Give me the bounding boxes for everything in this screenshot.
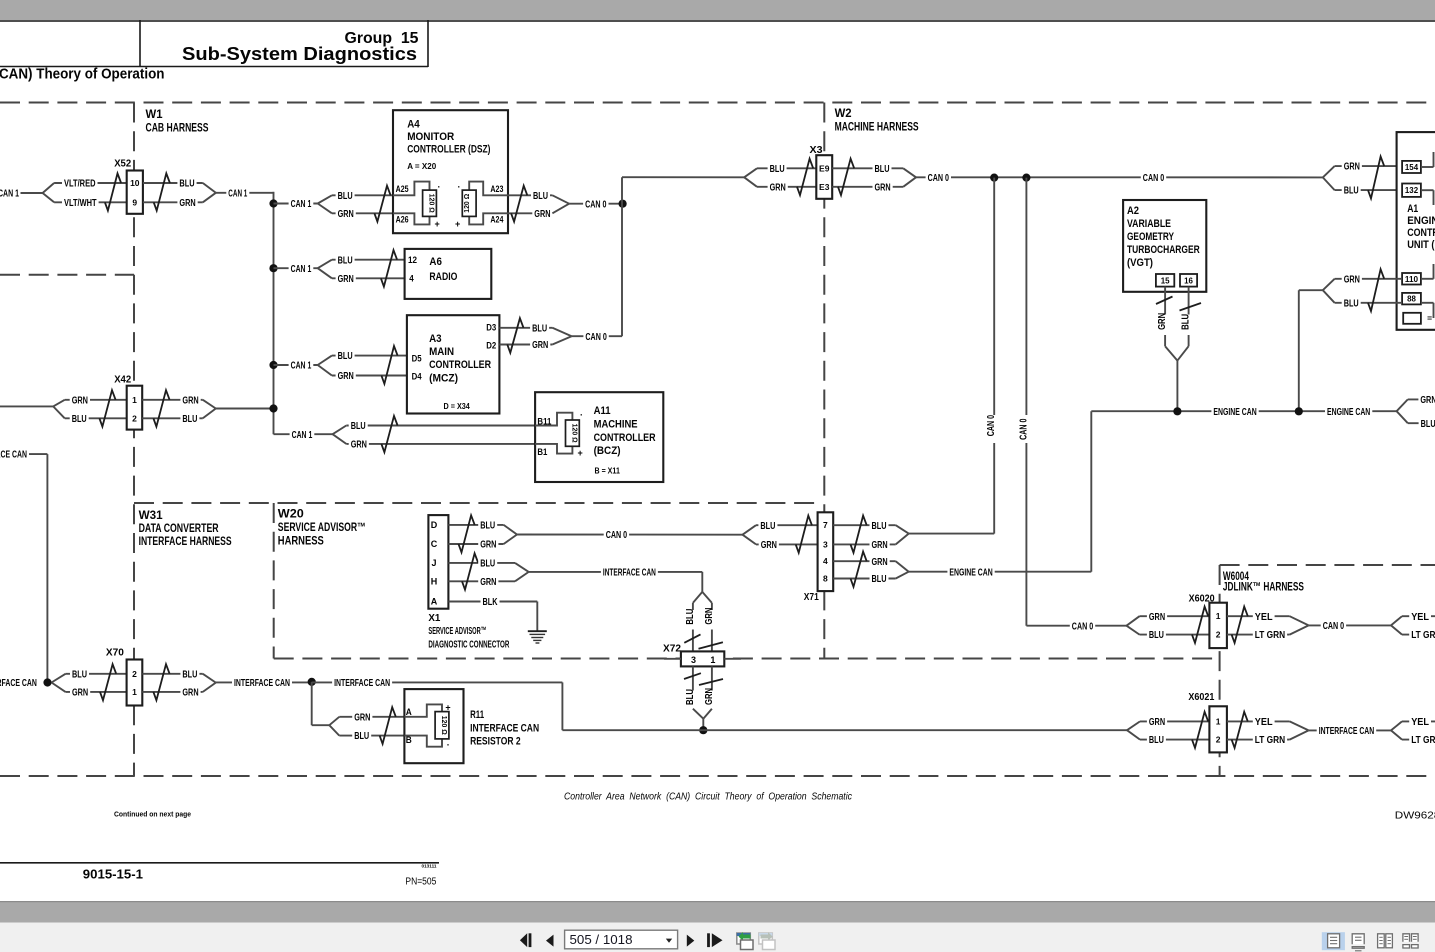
svg-text:(CAN) Theory of Operation: (CAN) Theory of Operation <box>0 67 165 83</box>
svg-text:W31: W31 <box>139 508 163 522</box>
net CAN 0 jdlink <box>1309 624 1391 626</box>
svg-text:9: 9 <box>132 197 137 207</box>
svg-text:120 Ω: 120 Ω <box>462 194 471 213</box>
svg-text:BLU: BLU <box>1149 735 1164 746</box>
svg-text:2: 2 <box>1216 735 1221 745</box>
svg-text:SERVICE ADVISOR™: SERVICE ADVISOR™ <box>278 520 366 534</box>
svg-text:GRN: GRN <box>704 608 715 625</box>
svg-text:D2: D2 <box>486 340 496 350</box>
svg-text:CAN 0: CAN 0 <box>1323 621 1345 632</box>
svg-text:GRN: GRN <box>532 340 548 351</box>
svg-text:+: + <box>445 703 450 713</box>
svg-text:BLU: BLU <box>1149 630 1164 641</box>
toolbar continuous view button <box>1352 934 1364 944</box>
svg-text:CAN 1: CAN 1 <box>291 264 312 275</box>
svg-text:BLU: BLU <box>1344 186 1359 197</box>
svg-text:UNIT (ECU): UNIT (ECU) <box>1407 239 1435 251</box>
svg-text:GRN: GRN <box>179 198 195 209</box>
svg-text:D: D <box>431 520 438 530</box>
junction CAN1-A6 <box>269 264 277 272</box>
svg-text:DATA CONVERTER: DATA CONVERTER <box>139 521 219 535</box>
svg-text:120 Ω: 120 Ω <box>440 716 449 735</box>
svg-text:GRN: GRN <box>354 712 370 723</box>
wire A4 right pair to CAN 0 <box>508 194 552 196</box>
junction A2-ENGINE CAN <box>1173 407 1181 415</box>
svg-text:ENGINE CAN: ENGINE CAN <box>1213 407 1256 418</box>
svg-text:·: · <box>447 740 450 750</box>
controller A4 MONITOR CONTROLLER (DSZ) <box>393 110 508 233</box>
toolbar background <box>0 923 1435 952</box>
harness boundary top dashed <box>0 102 1435 104</box>
junction A1-ENGINE CAN <box>1295 407 1303 415</box>
svg-text:SERVICE ADVISOR™: SERVICE ADVISOR™ <box>428 625 486 637</box>
harness W31/W20 top boundary dashed <box>134 502 816 504</box>
svg-text:1: 1 <box>1216 611 1221 621</box>
twisted pair mark <box>511 186 527 222</box>
resistor R11 INTERFACE CAN RESISTOR 2 <box>404 689 463 763</box>
svg-text:R11: R11 <box>470 709 484 721</box>
svg-text:LT GRN: LT GRN <box>1411 630 1435 641</box>
svg-text:1: 1 <box>1216 716 1221 726</box>
svg-text:INTERFACE CAN: INTERFACE CAN <box>470 722 539 734</box>
svg-text:BLU: BLU <box>72 669 87 680</box>
ground <box>528 630 547 632</box>
svg-text:INTERFACE CAN: INTERFACE CAN <box>234 678 290 689</box>
ECU A1 lower pins <box>1402 273 1421 285</box>
wire X52 right pair <box>143 182 203 184</box>
svg-text:GEOMETRY: GEOMETRY <box>1127 231 1174 243</box>
svg-text:013111: 013111 <box>422 864 438 869</box>
svg-text:B1: B1 <box>537 447 547 457</box>
svg-text:10: 10 <box>130 178 140 188</box>
twisted pair mark <box>796 516 812 553</box>
svg-text:BLU: BLU <box>760 521 775 532</box>
svg-text:X42: X42 <box>114 374 131 386</box>
junction X72-INTERFACE CAN <box>699 726 707 734</box>
twisted pair mark <box>851 516 867 553</box>
wire X72 boundary stubs <box>664 658 681 660</box>
wire X71 right pairs 7/3 <box>833 524 896 526</box>
net INTERFACE CAN service advisor <box>529 571 703 573</box>
wire X6021 right pair <box>1227 720 1290 722</box>
net CAN 0 from A3 <box>572 335 622 337</box>
harness W31/W20 divider dashed <box>273 503 275 659</box>
svg-text:GRN: GRN <box>1344 162 1360 173</box>
svg-text:CAN 0: CAN 0 <box>606 530 628 541</box>
wire X1 A pin BLK to ground <box>448 601 537 603</box>
svg-text:VARIABLE: VARIABLE <box>1127 218 1171 230</box>
svg-text:CAB HARNESS: CAB HARNESS <box>146 121 209 135</box>
radio A6 <box>405 249 492 299</box>
harness W6004 boundary dashed vertical <box>1219 565 1221 776</box>
net CAN 1 from left edge <box>0 187 21 198</box>
wire CAN0 riser <box>621 177 623 336</box>
toolbar next page button <box>687 935 695 947</box>
svg-text:E3: E3 <box>819 182 830 192</box>
svg-text:GRN: GRN <box>875 182 891 193</box>
svg-text:CAN 1: CAN 1 <box>228 188 247 199</box>
wire CAN0 to drop <box>909 533 995 535</box>
svg-text:GRN: GRN <box>761 540 777 551</box>
twisted pair mark <box>381 346 397 384</box>
wire merge to CAN 1 <box>203 183 216 193</box>
svg-text:+: + <box>455 219 460 229</box>
wire split to X70 <box>52 674 66 683</box>
wire from left edge to X42 <box>0 405 53 407</box>
resistor 120 ohm A4 right <box>469 182 508 196</box>
svg-text:BLU: BLU <box>338 351 353 362</box>
toolbar page combo box <box>565 930 678 949</box>
junction CAN0 <box>619 200 627 208</box>
svg-text:GRN: GRN <box>182 395 198 406</box>
svg-text:TURBOCHARGER: TURBOCHARGER <box>1127 244 1200 256</box>
net INTERFACE CAN jdlink <box>1309 729 1391 731</box>
svg-text:J: J <box>431 558 436 568</box>
svg-text:LT GRN: LT GRN <box>1411 735 1435 746</box>
wire A1 lower to ENGINE CAN <box>1299 289 1323 291</box>
svg-text:D5: D5 <box>412 353 422 363</box>
svg-text:BLU: BLU <box>480 559 495 570</box>
twisted pair mark <box>1192 712 1208 748</box>
harness W6004 boundary dashed horizontal <box>1220 564 1435 566</box>
svg-text:D = X34: D = X34 <box>444 401 471 411</box>
svg-text:X6021: X6021 <box>1188 691 1214 703</box>
twisted pair mark <box>105 173 121 210</box>
svg-text:CONTROLLER (DSZ): CONTROLLER (DSZ) <box>407 144 491 156</box>
harness W20 bottom boundary dashed <box>274 658 1220 660</box>
connector X1 SERVICE ADVISOR DIAGNOSTIC CONNECTOR <box>428 515 448 609</box>
junction CAN1-A4 <box>269 199 277 207</box>
wire branch CAN1 to A3 <box>274 364 318 366</box>
junction CAN0 drop 1 <box>990 174 998 182</box>
wire A1 pin 88 stub <box>1421 302 1434 304</box>
svg-text:BLU: BLU <box>685 609 696 625</box>
twisted pair mark <box>684 673 701 679</box>
wire branch CAN1 to A11 <box>274 433 333 435</box>
controller A3 MAIN CONTROLLER (MCZ) <box>407 315 500 413</box>
svg-text:MONITOR: MONITOR <box>407 131 454 143</box>
twisted pair mark <box>1156 297 1173 305</box>
svg-text:12: 12 <box>408 255 417 265</box>
svg-text:LT GRN: LT GRN <box>1255 735 1285 746</box>
svg-text:X70: X70 <box>106 647 124 659</box>
svg-text:3: 3 <box>691 655 696 665</box>
svg-text:INTERFACE CAN: INTERFACE CAN <box>1319 726 1375 737</box>
svg-text:A23: A23 <box>490 184 503 194</box>
svg-text:BLU: BLU <box>532 323 547 334</box>
wire INTERFACE CAN upper left <box>0 449 29 460</box>
svg-text:A25: A25 <box>396 184 409 194</box>
twisted pair mark <box>153 664 169 700</box>
svg-text:ENGINE CAN: ENGINE CAN <box>1327 407 1370 418</box>
twisted pair mark <box>459 515 475 552</box>
svg-text:BLU: BLU <box>179 179 194 190</box>
svg-text:CAN 1: CAN 1 <box>291 361 312 372</box>
twisted pair mark <box>381 416 397 452</box>
svg-text:2: 2 <box>132 669 137 679</box>
junction X42-bus <box>269 404 277 412</box>
svg-text:GRN: GRN <box>1157 313 1168 330</box>
net CAN 0 machine bus <box>916 176 1323 178</box>
junction INTERFACE CAN / R11 <box>308 678 316 686</box>
toolbar previous page button <box>546 935 554 947</box>
svg-text:GRN: GRN <box>338 274 354 285</box>
svg-text:2: 2 <box>1216 630 1221 640</box>
svg-text:GRN: GRN <box>480 540 496 551</box>
svg-text:CAN 1: CAN 1 <box>0 189 19 200</box>
svg-text:X71: X71 <box>804 591 819 603</box>
wire X1 D/C pair <box>448 524 503 526</box>
svg-text:A2: A2 <box>1127 205 1139 217</box>
svg-text:(MCZ): (MCZ) <box>429 373 458 385</box>
svg-text:INTERFACE CAN: INTERFACE CAN <box>334 678 390 689</box>
svg-text:BLU: BLU <box>685 689 696 705</box>
wire CAN0 drop to X6020 <box>1025 178 1027 415</box>
bottom gray bar <box>0 902 1435 923</box>
svg-text:GRN: GRN <box>338 209 354 220</box>
svg-text:A4: A4 <box>407 119 420 131</box>
net CAN 0 from A4 <box>569 203 623 205</box>
svg-text:A: A <box>431 596 438 606</box>
net ENGINE CAN <box>1091 410 1396 412</box>
svg-text:A = X20: A = X20 <box>407 161 436 171</box>
wire X1 J/H pair <box>448 562 515 564</box>
svg-text:INTERFACE CAN: INTERFACE CAN <box>0 450 27 461</box>
twisted pair mark <box>154 173 170 210</box>
svg-text:W20: W20 <box>278 507 304 521</box>
left harness lower boundary dashed <box>0 274 134 276</box>
svg-text:GRN: GRN <box>704 688 715 705</box>
svg-text:8: 8 <box>823 574 828 584</box>
resistor 120 ohm A4 left <box>393 182 430 196</box>
svg-text:GRN: GRN <box>338 371 354 382</box>
wire corner down to CAN1 bus <box>273 192 275 204</box>
svg-text:W1: W1 <box>146 107 163 121</box>
svg-text:MACHINE HARNESS: MACHINE HARNESS <box>835 120 919 134</box>
svg-text:INTERFACE HARNESS: INTERFACE HARNESS <box>139 534 232 548</box>
svg-text:GRN: GRN <box>72 688 88 699</box>
net CAN 0 service advisor <box>517 534 743 536</box>
svg-text:B = X11: B = X11 <box>595 466 621 476</box>
wire A1 lower pair chevron <box>1323 279 1335 290</box>
twisted pair mark <box>1232 712 1248 748</box>
toolbar open in new window icon <box>737 933 751 944</box>
svg-text:RADIO: RADIO <box>429 271 457 283</box>
svg-text:BLU: BLU <box>1421 419 1435 430</box>
svg-text:GRN: GRN <box>182 688 198 699</box>
svg-text:X72: X72 <box>663 642 681 654</box>
net ENGINE CAN lower run <box>909 571 1092 573</box>
svg-text:=: = <box>1427 313 1432 323</box>
svg-text:BLU: BLU <box>338 255 353 266</box>
svg-text:H: H <box>431 576 438 586</box>
svg-text:A3: A3 <box>429 333 442 345</box>
wire A2 pin drops <box>1164 287 1166 347</box>
twisted pair mark <box>462 553 478 589</box>
svg-text:D4: D4 <box>412 372 422 382</box>
twisted pair mark <box>1192 607 1208 643</box>
net INTERFACE CAN main run <box>216 681 312 683</box>
svg-text:15: 15 <box>1161 275 1170 285</box>
twisted pair mark <box>99 390 115 426</box>
twisted pair mark <box>1368 157 1384 199</box>
svg-text:CAN 0: CAN 0 <box>1143 173 1165 184</box>
svg-text:7: 7 <box>823 520 828 530</box>
svg-text:120 Ω: 120 Ω <box>428 194 437 213</box>
svg-text:YEL: YEL <box>1411 717 1429 728</box>
wire A3 right pair to CAN 0 <box>499 327 552 329</box>
svg-text:GRN: GRN <box>872 557 888 568</box>
wire INTERFACE CAN corner to X6021 <box>561 682 563 730</box>
svg-text:505 / 1018: 505 / 1018 <box>570 933 633 947</box>
svg-text:A24: A24 <box>490 214 503 224</box>
wire split CAN0 to A1 <box>1323 166 1335 177</box>
wire CAN0 to X6020 <box>1026 625 1126 627</box>
svg-text:A6: A6 <box>429 256 442 268</box>
svg-text:C: C <box>431 539 438 549</box>
svg-text:BLU: BLU <box>354 731 369 742</box>
toolbar two page view button <box>1378 934 1385 948</box>
svg-text:ENGINE: ENGINE <box>1407 215 1435 227</box>
svg-text:PN=505: PN=505 <box>405 877 436 888</box>
resistor 120 ohm A11 <box>535 413 572 426</box>
wire branch CAN1 to A6 <box>274 267 318 269</box>
harness W2 left boundary dashed <box>823 103 825 659</box>
svg-text:CAN 0: CAN 0 <box>928 173 950 184</box>
svg-text:CONTROL: CONTROL <box>1407 227 1435 239</box>
svg-text:BLU: BLU <box>875 164 890 175</box>
svg-text:CAN 0: CAN 0 <box>986 415 997 437</box>
svg-text:VLT/WHT: VLT/WHT <box>64 198 97 209</box>
svg-text:BLU: BLU <box>182 414 197 425</box>
wire R11 branch <box>311 682 313 725</box>
svg-text:LT GRN: LT GRN <box>1255 630 1285 641</box>
svg-text:(VGT): (VGT) <box>1127 257 1153 269</box>
svg-text:·: · <box>438 182 441 192</box>
svg-text:CAN 0: CAN 0 <box>585 332 607 343</box>
wire A2 pair merge <box>1165 346 1177 360</box>
wire to X6021 <box>1127 721 1140 730</box>
svg-text:X52: X52 <box>114 158 131 170</box>
toolbar open in new window icon disabled <box>759 933 773 944</box>
svg-text:16: 16 <box>1184 275 1193 285</box>
svg-text:GRN: GRN <box>534 209 550 220</box>
svg-text:1: 1 <box>132 687 137 697</box>
svg-text:A: A <box>406 707 412 717</box>
svg-text:YEL: YEL <box>1255 717 1273 728</box>
wire split to X52 <box>43 183 55 193</box>
toolbar two page continuous button <box>1403 934 1410 942</box>
twisted pair mark <box>374 186 390 222</box>
svg-text:+: + <box>578 448 583 458</box>
app top gray bar <box>0 0 1435 20</box>
svg-text:3: 3 <box>823 539 828 549</box>
wire CAN0 drop to X71 <box>993 178 995 415</box>
wire split to X71 pins 7/3 <box>743 525 757 535</box>
svg-text:1: 1 <box>132 395 137 405</box>
svg-text:E9: E9 <box>819 163 830 173</box>
wire branch CAN1 to A4 <box>274 203 318 205</box>
svg-text:CAN 0: CAN 0 <box>585 199 607 210</box>
svg-text:A1: A1 <box>1407 203 1418 215</box>
wire X70 right pair <box>142 673 203 675</box>
svg-text:MAIN: MAIN <box>429 346 454 358</box>
wire INTERFACE CAN down to X72 <box>701 572 703 592</box>
svg-text:88: 88 <box>1407 294 1416 304</box>
svg-text:1: 1 <box>710 655 715 665</box>
svg-text:4: 4 <box>823 556 828 566</box>
twisted pair mark <box>153 390 169 426</box>
svg-text:W2: W2 <box>835 106 852 120</box>
svg-text:HARNESS: HARNESS <box>278 534 324 548</box>
wire X72 pair merge to INTERFACE CAN <box>693 709 703 719</box>
svg-text:Controller Area Network (CA: Controller Area Network (CAN) Circuit Th… <box>564 792 852 803</box>
svg-text:BLK: BLK <box>483 597 499 608</box>
twisted pair mark <box>507 318 523 353</box>
twisted pair mark <box>381 250 397 287</box>
svg-text:CAN 0: CAN 0 <box>1072 621 1094 632</box>
wire X42 right pair <box>142 399 203 401</box>
wire X3 right pair <box>832 167 903 169</box>
junction CAN1-A3 <box>269 361 277 369</box>
wire A1 pin 110 stub <box>1421 278 1434 280</box>
svg-text:GRN: GRN <box>351 440 367 451</box>
svg-text:(BCZ): (BCZ) <box>594 445 621 457</box>
svg-text:·: · <box>458 182 461 192</box>
svg-text:154: 154 <box>1405 162 1418 172</box>
twisted pair mark <box>1368 269 1384 311</box>
svg-text:BLU: BLU <box>1181 314 1192 330</box>
svg-text:GRN: GRN <box>72 395 88 406</box>
svg-text:·: · <box>580 410 583 420</box>
svg-text:GRN: GRN <box>1420 395 1435 406</box>
svg-text:Continued on next page: Continued on next page <box>114 812 191 819</box>
wire X72 lower pair <box>692 666 694 708</box>
svg-text:GRN: GRN <box>1149 717 1165 728</box>
svg-text:MACHINE: MACHINE <box>594 419 638 431</box>
svg-text:CAN 1: CAN 1 <box>292 430 313 441</box>
svg-text:CAN 0: CAN 0 <box>1018 418 1029 440</box>
svg-text:BLU: BLU <box>872 521 887 532</box>
svg-text:GRN: GRN <box>1149 612 1165 623</box>
svg-text:132: 132 <box>1405 185 1418 195</box>
svg-text:BLU: BLU <box>338 191 353 202</box>
svg-text:BLU: BLU <box>533 191 548 202</box>
connector X71 <box>818 512 834 591</box>
title box <box>0 20 428 67</box>
toolbar last page button <box>707 933 710 947</box>
wire A1 pin 132 stub <box>1421 189 1434 191</box>
svg-text:CAN 1: CAN 1 <box>291 199 312 210</box>
svg-text:YEL: YEL <box>1411 612 1429 623</box>
svg-text:A26: A26 <box>396 214 409 224</box>
toolbar single page view button (active) <box>1322 932 1345 950</box>
twisted pair mark <box>100 664 116 700</box>
turbocharger A2 VARIABLE GEOMETRY TURBOCHARGER (VGT) <box>1123 200 1206 292</box>
svg-text:BLU: BLU <box>480 521 495 532</box>
svg-text:GRN: GRN <box>770 182 786 193</box>
svg-text:RESISTOR 2: RESISTOR 2 <box>470 736 520 748</box>
svg-text:BLU: BLU <box>872 574 887 585</box>
svg-text:4: 4 <box>409 274 414 284</box>
svg-text:D3: D3 <box>486 323 496 333</box>
svg-text:VLT/RED: VLT/RED <box>64 179 96 190</box>
svg-text:JDLINK™ HARNESS: JDLINK™ HARNESS <box>1223 580 1304 594</box>
twisted pair mark <box>380 707 396 744</box>
junction CAN0 drop 2 <box>1022 174 1030 182</box>
svg-text:BLU: BLU <box>182 669 197 680</box>
twisted pair mark <box>851 552 867 587</box>
